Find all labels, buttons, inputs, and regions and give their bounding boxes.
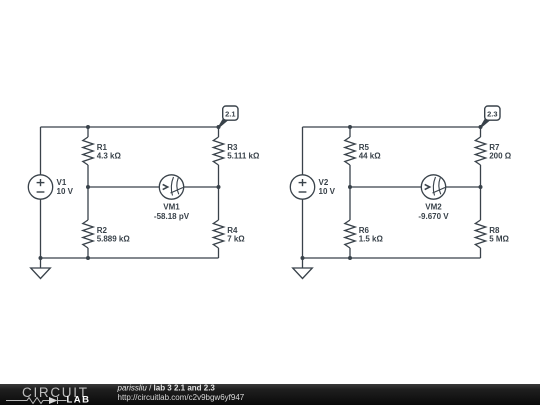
- label R8 value: [489, 226, 509, 244]
- wire source top lead: [40, 127, 42, 175]
- svg-text:http://circuitlab.com/c2v9bgw6: http://circuitlab.com/c2v9bgw6yf947: [118, 393, 245, 402]
- junction R5/R6 mid: [348, 185, 352, 189]
- voltmeter VM2: [421, 175, 445, 199]
- label R4 value: [227, 226, 245, 244]
- logo resistor-diode line: [6, 397, 67, 404]
- resistor R7: [475, 127, 485, 187]
- voltage source V1: [28, 175, 52, 199]
- junction source bottom: [301, 256, 305, 260]
- svg-text:1.5 kΩ: 1.5 kΩ: [359, 235, 384, 244]
- wire middle right segment: [184, 186, 219, 188]
- svg-text:-58.18 pV: -58.18 pV: [154, 212, 190, 221]
- node label 2.1 pointer: [219, 118, 228, 127]
- label R6 value: [359, 226, 384, 244]
- wire middle right segment: [446, 186, 481, 188]
- resistor R2: [83, 187, 93, 258]
- node label 2.1 box: [223, 106, 238, 120]
- label R5 value: [359, 143, 382, 161]
- junction node 2.3: [479, 125, 483, 129]
- svg-text:5 MΩ: 5 MΩ: [489, 235, 509, 244]
- svg-text:2.1: 2.1: [225, 109, 235, 118]
- junction R7/R8 mid: [479, 185, 483, 189]
- junction R5 top: [348, 125, 352, 129]
- wire bottom rail: [303, 257, 481, 259]
- svg-text:7 kΩ: 7 kΩ: [227, 235, 245, 244]
- svg-text:parissliu / lab 3 2.1 and 2.3: parissliu / lab 3 2.1 and 2.3: [117, 384, 216, 393]
- label R2 value: [97, 226, 131, 244]
- svg-text:V2: V2: [319, 178, 329, 187]
- junction R1 top: [86, 125, 90, 129]
- svg-text:5.889 kΩ: 5.889 kΩ: [97, 235, 131, 244]
- wire source top lead: [302, 127, 304, 175]
- wire top rail: [41, 126, 219, 128]
- junction R3/R4 mid: [217, 185, 221, 189]
- voltmeter VM1: [159, 175, 183, 199]
- resistor R4: [213, 187, 223, 258]
- wire middle left segment: [350, 186, 421, 188]
- junction source bottom: [39, 256, 43, 260]
- junction R1/R2 mid: [86, 185, 90, 189]
- junction R2 bottom: [86, 256, 90, 260]
- svg-text:4.3 kΩ: 4.3 kΩ: [97, 152, 122, 161]
- label VM1 value: [154, 203, 190, 221]
- svg-text:-9.670 V: -9.670 V: [418, 212, 449, 221]
- label V1 value: [57, 178, 74, 196]
- resistor R5: [345, 127, 355, 187]
- resistor R1: [83, 127, 93, 187]
- junction R6 bottom: [348, 256, 352, 260]
- wire source bottom lead: [40, 199, 42, 258]
- svg-text:5.111 kΩ: 5.111 kΩ: [227, 152, 260, 161]
- wire bottom rail: [41, 257, 219, 259]
- svg-text:LAB: LAB: [67, 395, 91, 406]
- ground: [31, 258, 51, 279]
- svg-text:10 V: 10 V: [57, 187, 74, 196]
- label R3 value: [227, 143, 260, 161]
- label R7 value: [489, 143, 512, 161]
- node label 2.3 pointer: [481, 118, 490, 127]
- resistor R8: [475, 187, 485, 258]
- junction node 2.1: [217, 125, 221, 129]
- label R1 value: [97, 143, 122, 161]
- svg-text:44 kΩ: 44 kΩ: [359, 152, 382, 161]
- svg-text:10 V: 10 V: [319, 187, 336, 196]
- ground: [293, 258, 313, 279]
- label VM2 value: [418, 203, 449, 221]
- wire middle left segment: [88, 186, 159, 188]
- svg-text:200 Ω: 200 Ω: [489, 152, 512, 161]
- label V2 value: [319, 178, 336, 196]
- wire top rail: [303, 126, 481, 128]
- node label 2.3 box: [485, 106, 500, 120]
- resistor R3: [213, 127, 223, 187]
- svg-text:2.3: 2.3: [487, 109, 497, 118]
- resistor R6: [345, 187, 355, 258]
- voltage source V2: [290, 175, 314, 199]
- svg-text:V1: V1: [57, 178, 67, 187]
- wire source bottom lead: [302, 199, 304, 258]
- svg-text:VM2: VM2: [425, 203, 442, 212]
- svg-text:VM1: VM1: [163, 203, 180, 212]
